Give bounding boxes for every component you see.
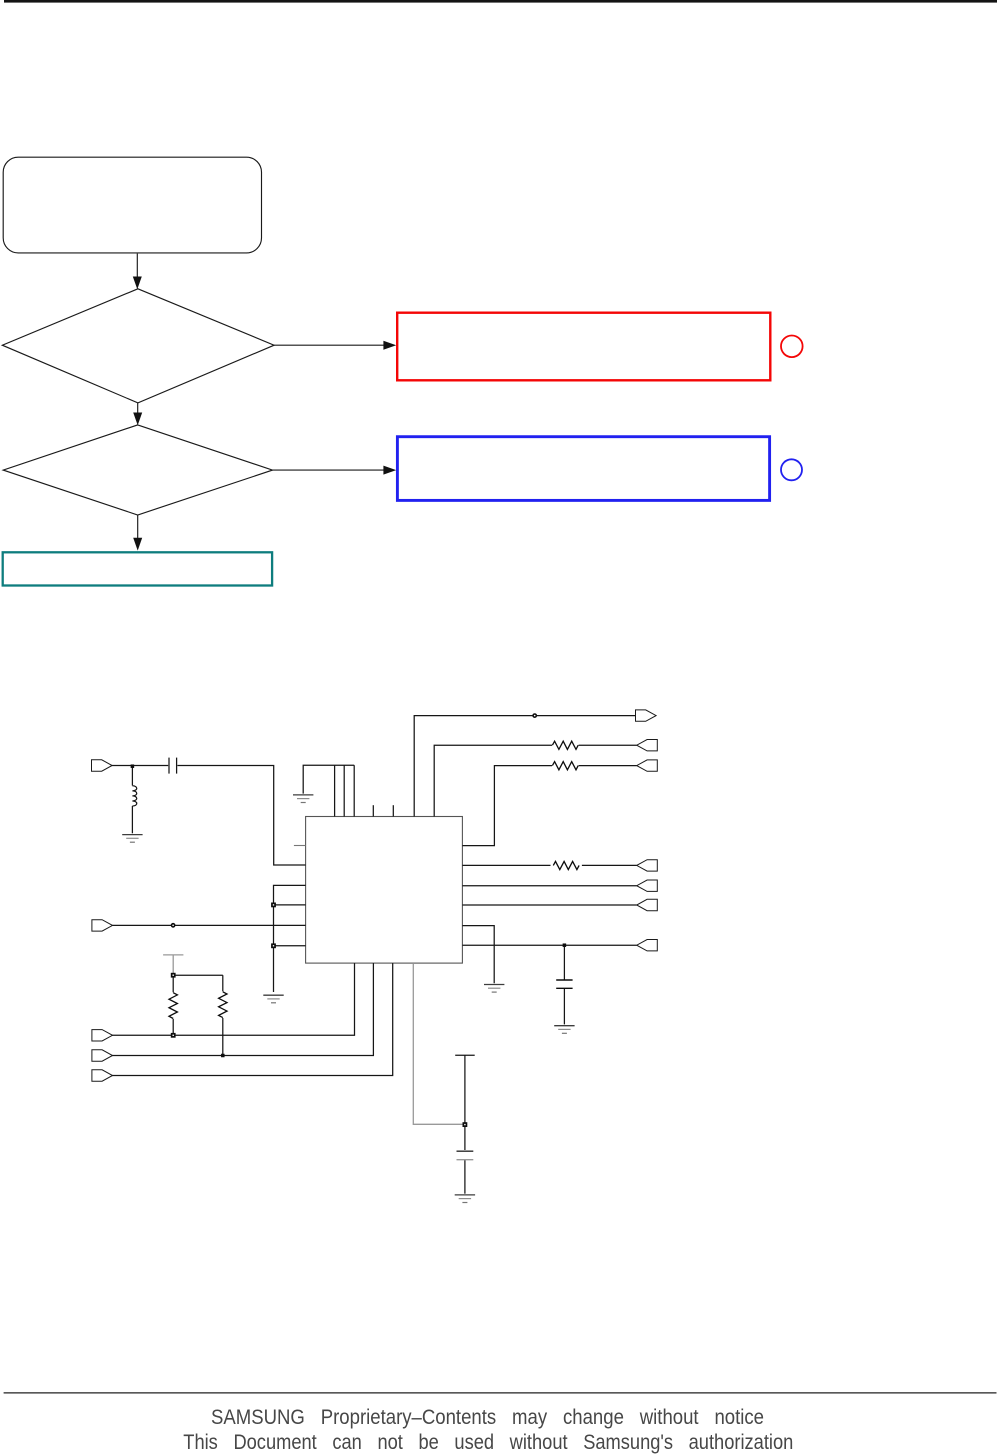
svg-text:This Document can not be used: This Document can not be used without Sa… bbox=[183, 1431, 793, 1454]
svg-text:SAMSUNG Proprietary–Contents m: SAMSUNG Proprietary–Contents may change … bbox=[211, 1406, 764, 1429]
